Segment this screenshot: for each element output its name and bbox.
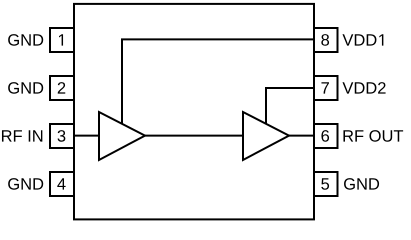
- pin 1 box: [50, 28, 74, 52]
- wire amplifier A2 output to pin 6: [289, 135, 314, 137]
- pin 7 label VDD2: [342, 82, 385, 94]
- pin 4 box: [50, 172, 74, 196]
- pin 4 label GND: [8, 178, 43, 190]
- pin 1 label GND: [8, 34, 43, 46]
- pin 8 label VDD1: [342, 34, 383, 45]
- pin 3 box: [50, 124, 74, 148]
- wire amplifier A1 output to amplifier A2 input: [145, 135, 243, 137]
- pin 6 box: [314, 124, 338, 148]
- pin 5 label GND: [344, 178, 379, 190]
- pin 6 number: [321, 130, 329, 142]
- pin 8 number: [321, 34, 329, 46]
- amplifier A2: [243, 112, 289, 160]
- pin 2 label GND: [8, 82, 43, 94]
- wire amplifier A1 supply to pin 8 (VDD1): [122, 39, 314, 125]
- IC body U1: [74, 4, 314, 220]
- pin 2 box: [50, 76, 74, 100]
- wire pin 3 to amplifier A1 input: [74, 135, 99, 137]
- pin 7 box: [314, 76, 338, 100]
- pin 6 label RF OUT: [343, 130, 403, 142]
- amplifier A1: [99, 112, 145, 160]
- pin 8 box: [314, 28, 338, 52]
- pin 3 number: [58, 130, 66, 142]
- pin 5 box: [314, 172, 338, 196]
- pin 1 number: [59, 34, 63, 45]
- pin 4 number: [57, 178, 65, 189]
- wire amplifier A2 supply to pin 7 (VDD2): [266, 88, 314, 125]
- pin 3 label RF IN: [2, 130, 42, 141]
- pin 2 number: [58, 82, 66, 94]
- pin 7 number: [321, 82, 329, 93]
- pin 5 number: [321, 178, 329, 190]
